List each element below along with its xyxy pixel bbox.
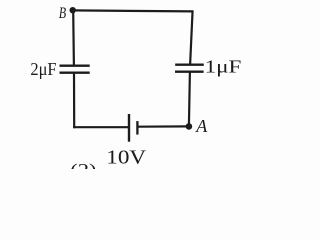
svg-text:1μF: 1μF [205, 57, 242, 77]
wire: right side upper (to 1uF top plate) [190, 10, 193, 64]
svg-text:(2): (2) [70, 160, 96, 169]
svg-text:2μF: 2μF [30, 59, 56, 79]
wire: bottom left (battery to bottom-left corner) [73, 126, 129, 128]
svg-text:10V: 10V [106, 146, 146, 168]
capacitor C1 (2uF) plates [60, 66, 90, 73]
wire: top side B to top-right corner [73, 10, 194, 11]
wire: right side lower (1uF bottom plate to node A) [189, 72, 190, 127]
wire: left side upper (2uF top plate up to node B) [72, 10, 75, 65]
svg-text:B: B [59, 5, 67, 22]
battery V1 short (negative) plate [136, 121, 138, 135]
svg-text:A: A [195, 116, 208, 136]
battery V1 long (positive) plate [128, 114, 130, 142]
node A (junction dot) [186, 123, 193, 130]
node B (junction dot) [70, 7, 76, 13]
capacitor C2 (1uF) plates [175, 65, 204, 72]
wire: left side lower (corner up to 2uF bottom plate) [73, 73, 75, 129]
wire: bottom right (node A to battery short plate) [137, 125, 189, 127]
